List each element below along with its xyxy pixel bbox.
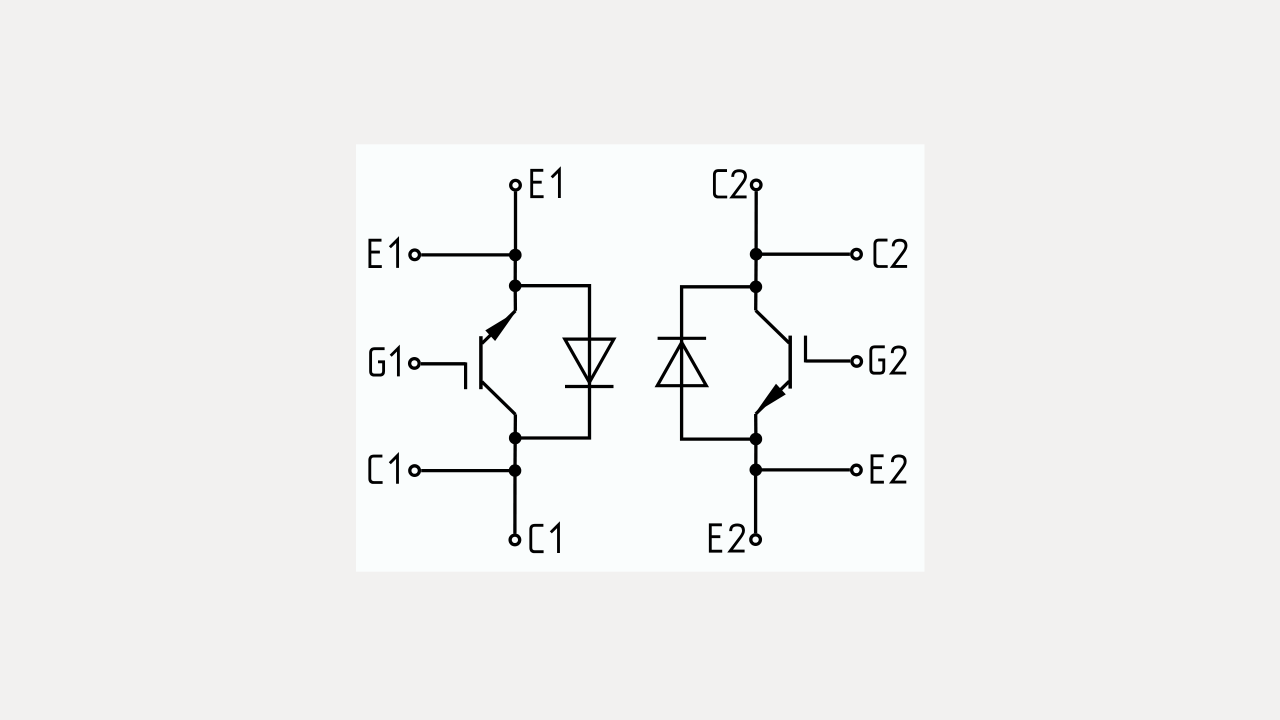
node E1 junction [509, 249, 522, 262]
transistor T2 collector diagonal [756, 310, 790, 343]
transistor T1 collector diagonal [482, 382, 516, 415]
label C2 side [875, 240, 907, 266]
label G2 [871, 347, 906, 373]
node C2 junction [750, 248, 763, 261]
wire [756, 253, 850, 256]
transistor T1 gate bar [464, 362, 467, 389]
transistor T2 gate bar [804, 336, 807, 363]
node C1 junction to diode [509, 432, 522, 445]
schematic panel [356, 144, 925, 571]
terminal C2 side [852, 249, 862, 259]
label C1 bottom [531, 525, 559, 553]
wire [754, 470, 757, 533]
label C2 top [714, 171, 746, 197]
terminal G2 [852, 357, 862, 367]
wire [682, 287, 756, 439]
wire [754, 254, 757, 287]
wire [514, 286, 518, 311]
wire [514, 255, 517, 286]
wire [514, 192, 517, 255]
wire [421, 253, 515, 256]
transistor T1 emitter diagonal [482, 311, 516, 344]
wire [513, 471, 516, 534]
transistor T1 collector-emitter bar [479, 336, 483, 389]
transistor T2 collector-emitter bar [788, 336, 792, 389]
wire [806, 359, 851, 362]
terminal G1 [410, 359, 420, 369]
terminal E1 top [511, 180, 521, 190]
label E1 side [370, 240, 398, 268]
diode D1 [565, 339, 614, 382]
wire [756, 468, 850, 471]
label C1 side [370, 456, 398, 484]
transistor T2 emitter diagonal [756, 381, 790, 414]
terminal C1 side [410, 466, 420, 476]
wire [421, 362, 466, 365]
wire [754, 287, 758, 311]
terminal E2 side [852, 465, 862, 475]
node junction to diode D2 [750, 433, 763, 446]
wire [754, 191, 757, 254]
wire [754, 414, 758, 439]
transistor T2 emitter arrow [755, 384, 786, 413]
label G1 [371, 348, 399, 376]
node junction to diode D1 [509, 280, 522, 293]
terminal C1 bottom [510, 535, 520, 545]
terminal C2 top [751, 180, 761, 190]
label E2 side [872, 456, 906, 482]
node E2 junction [750, 464, 763, 477]
label E1 top [532, 170, 560, 198]
label E2 bottom [710, 525, 744, 551]
wire [421, 469, 515, 472]
wire [514, 414, 518, 438]
wire [515, 286, 589, 438]
terminal E1 side [410, 250, 420, 260]
transistor T1 emitter arrow [485, 312, 516, 341]
terminal E2 bottom [751, 535, 761, 545]
node C1 junction [509, 464, 522, 477]
wire [513, 438, 517, 471]
diode D2 [657, 342, 706, 385]
wire [754, 439, 757, 470]
node C2 junction to diode [750, 281, 763, 294]
